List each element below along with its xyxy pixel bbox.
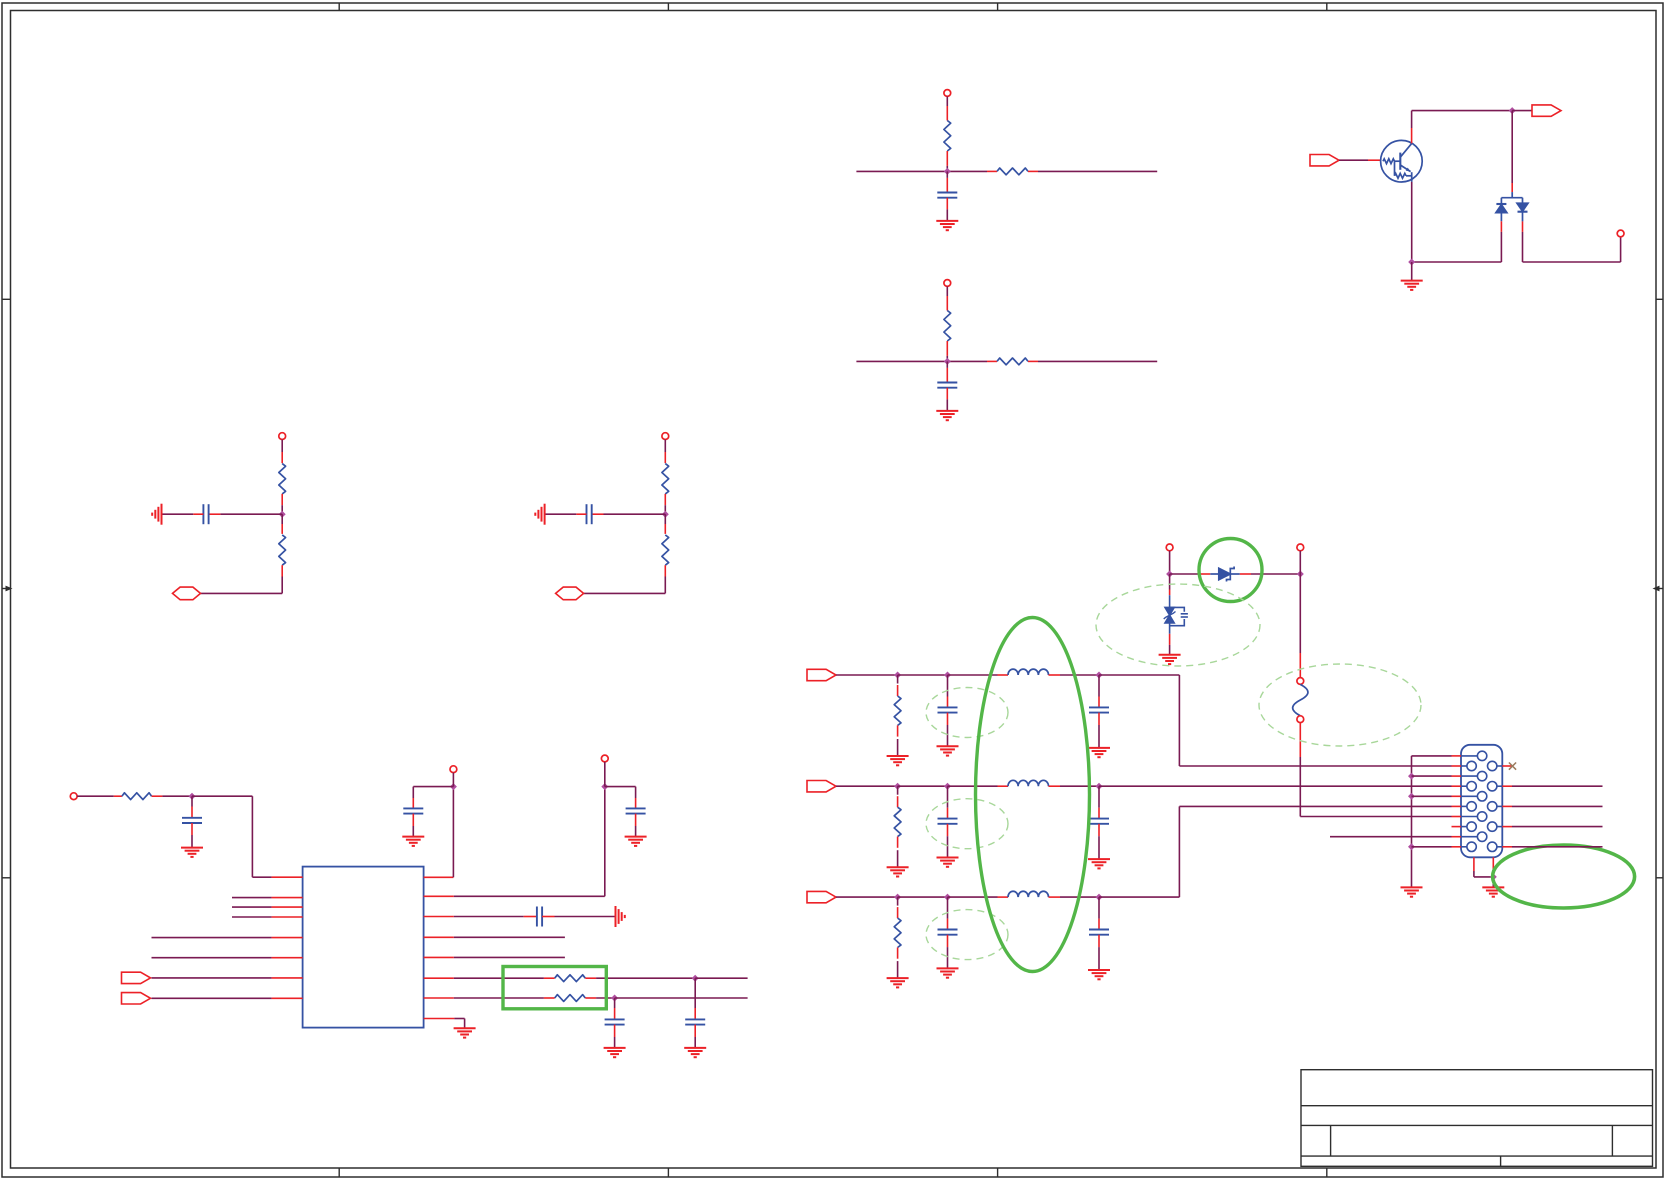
wire CH3 to J1 xyxy=(1099,896,1179,898)
resistor R2a (vertical) xyxy=(944,311,951,342)
ground xyxy=(937,746,959,755)
ground xyxy=(684,1048,706,1057)
ground xyxy=(936,411,958,420)
wire (horizontal net) xyxy=(856,360,987,362)
resistor (lower) xyxy=(664,514,666,524)
wire xyxy=(281,440,283,453)
node junction xyxy=(1408,773,1415,780)
port (bidirectional) xyxy=(173,587,201,600)
wire xyxy=(1412,775,1452,777)
wire xyxy=(664,440,666,453)
wire xyxy=(898,674,948,676)
wire xyxy=(1060,674,1099,676)
ground xyxy=(887,756,909,765)
wire xyxy=(695,977,747,979)
port (open circle) xyxy=(1617,230,1624,237)
wire xyxy=(836,896,898,898)
node junction xyxy=(1490,873,1497,880)
connector J1 (body) xyxy=(1461,745,1502,858)
J1 shell pins to ground xyxy=(1473,857,1475,871)
port IN (arrow) xyxy=(1310,155,1339,166)
J1 pin L5 xyxy=(1452,846,1462,848)
resistor (pulldown CH2) xyxy=(897,786,899,795)
J1 pin R1 xyxy=(1497,765,1502,767)
node junction xyxy=(692,975,699,982)
diode D2 (schottky) xyxy=(1199,573,1211,575)
node junction xyxy=(1408,259,1415,266)
capacitor (CH3 output) xyxy=(1098,897,1100,919)
ground xyxy=(1088,748,1110,757)
wire to D1 xyxy=(1511,111,1513,183)
pin lead xyxy=(946,151,948,166)
U1 pin 9 (gnd) xyxy=(424,1018,455,1020)
wire xyxy=(1060,896,1099,898)
capacitor (series) xyxy=(454,916,524,918)
highlight circle (green) xyxy=(1199,539,1262,602)
wire to U1 pin 1 xyxy=(192,795,252,797)
highlight ellipse (dashed) xyxy=(926,910,1008,960)
wire to right xyxy=(1038,170,1157,172)
port CH3 (arrow) xyxy=(807,891,836,902)
wire xyxy=(1412,795,1452,797)
port OUT (arrow) xyxy=(1512,110,1532,112)
ground xyxy=(604,1048,626,1057)
pin lead xyxy=(281,494,283,505)
J1 pin R2 xyxy=(1497,785,1502,787)
capacitor C1 (to ground) xyxy=(946,171,948,178)
wire xyxy=(898,785,948,787)
U1 pin 11 xyxy=(424,977,454,979)
wire xyxy=(452,787,454,878)
pin lead xyxy=(1169,634,1171,645)
port (bidirectional) xyxy=(556,587,584,600)
wire xyxy=(1512,846,1603,848)
J1 pin 5 xyxy=(1452,795,1462,797)
resistor (series, in highlight box) xyxy=(544,997,555,999)
highlight ellipse (dashed) xyxy=(1096,584,1260,666)
wire emitter net xyxy=(1411,182,1413,262)
node junction xyxy=(944,358,951,365)
node junction xyxy=(894,783,901,790)
capacitor (to gnd) xyxy=(191,796,193,806)
Q1 collector wire xyxy=(1411,128,1413,143)
capacitor (decoupling) xyxy=(605,786,636,788)
ground xyxy=(454,1028,476,1037)
wire xyxy=(1299,757,1301,817)
node junction xyxy=(1509,107,1516,114)
J1 pin 1 xyxy=(1452,755,1462,757)
no-connect X xyxy=(1509,763,1516,770)
fuse F1 xyxy=(1297,678,1304,685)
J1 pin 9 xyxy=(1452,836,1462,838)
pin lead xyxy=(152,795,163,797)
wire xyxy=(948,674,998,676)
highlight ellipse (dashed) xyxy=(926,688,1008,738)
ground xyxy=(887,867,909,876)
port CH1 (arrow) xyxy=(807,669,836,680)
inductor L3 (ferrite bead) xyxy=(998,896,1009,898)
ground xyxy=(1401,887,1423,896)
ground (sideways) xyxy=(152,504,161,525)
transistor Q1 (digital transistor) xyxy=(1381,140,1423,182)
wire xyxy=(454,977,544,979)
pin lead xyxy=(946,341,948,356)
node junction xyxy=(1166,571,1173,578)
node junction xyxy=(1297,571,1304,578)
wire xyxy=(1169,551,1171,574)
ground xyxy=(1088,859,1110,868)
wire CH2 to J1 xyxy=(1099,785,1452,787)
wire xyxy=(1492,877,1494,888)
resistor (upper) xyxy=(662,464,669,494)
node junction xyxy=(279,511,286,518)
wire xyxy=(1299,551,1301,574)
U1 pin 12 xyxy=(424,956,454,958)
node junction xyxy=(944,894,951,901)
inductor L2 (ferrite bead) xyxy=(998,785,1009,787)
wire xyxy=(454,997,544,999)
D1 pin leads xyxy=(1500,221,1502,232)
port (open circle) xyxy=(1166,544,1173,551)
U1 pin 5 xyxy=(152,937,272,939)
dual diode D1 (common node) xyxy=(1496,192,1528,221)
U1 pin 3 xyxy=(232,906,272,908)
ground xyxy=(1088,970,1110,979)
node junction xyxy=(1408,793,1415,800)
IC U1 (body) xyxy=(303,867,424,1028)
node junction xyxy=(189,793,196,800)
wire xyxy=(615,997,748,999)
wire CH1 to J1 xyxy=(1099,674,1179,676)
J1 pin L2 xyxy=(1452,785,1462,787)
wire xyxy=(1412,846,1452,848)
port (open circle) xyxy=(601,755,608,762)
capacitor (CH2 output) xyxy=(1098,786,1100,808)
pin lead xyxy=(664,494,666,505)
node junction xyxy=(450,783,457,790)
ground xyxy=(1159,655,1181,664)
ground (sideways) xyxy=(616,906,625,927)
ground xyxy=(936,221,958,230)
port (open circle) xyxy=(70,793,77,800)
U1 pin 10 xyxy=(424,997,454,999)
U1 pin 14 xyxy=(424,916,454,918)
wire xyxy=(1170,573,1199,575)
J1 pin R4 xyxy=(1497,826,1502,828)
wire xyxy=(77,795,114,797)
ground xyxy=(625,837,647,846)
capacitor (series to gnd) xyxy=(220,513,282,515)
J1 pin L1 xyxy=(1452,765,1462,767)
capacitor (decoupling) xyxy=(413,786,453,788)
wire D1 right to port xyxy=(1522,232,1524,262)
TVS D3 (with parallel cap) xyxy=(1169,574,1171,590)
wire xyxy=(948,896,998,898)
J1 pin L3 xyxy=(1452,805,1462,807)
resistor (pulldown CH1) xyxy=(897,675,899,684)
wire gnd bus xyxy=(1411,756,1413,888)
ground (sideways) xyxy=(535,504,544,525)
highlight ellipse (dashed) xyxy=(926,799,1008,849)
wire xyxy=(454,895,605,897)
U1 pin 7 xyxy=(152,977,272,979)
ground xyxy=(1401,281,1423,290)
highlight ellipse (dashed) xyxy=(1259,664,1421,746)
capacitor (to gnd) xyxy=(614,998,616,1008)
node junction xyxy=(944,672,951,679)
resistor (pulldown CH3) xyxy=(897,897,899,906)
wire collector net xyxy=(1412,110,1513,112)
resistor (lower) xyxy=(281,514,283,524)
port (arrow) xyxy=(122,993,151,1004)
port (open circle) xyxy=(450,766,457,773)
port (open circle) xyxy=(662,433,669,440)
capacitor C2 (to ground) xyxy=(946,361,948,368)
wire xyxy=(1512,826,1603,828)
node junction xyxy=(944,168,951,175)
resistor R1b (series horizontal) xyxy=(987,170,997,172)
pin lead xyxy=(1299,723,1301,757)
node junction xyxy=(1096,672,1103,679)
ground xyxy=(937,858,959,867)
node junction xyxy=(894,672,901,679)
capacitor (CH3 input) xyxy=(947,897,949,919)
wire xyxy=(454,956,565,958)
node junction xyxy=(944,783,951,790)
wire P1 to R1a xyxy=(946,96,948,106)
U1 pin 2 xyxy=(232,897,272,899)
wire xyxy=(596,977,695,979)
highlight box (green) xyxy=(503,967,606,1009)
U1 pin 16 xyxy=(424,876,454,878)
capacitor (CH2 input) xyxy=(947,786,949,808)
resistor (series, in highlight box) xyxy=(544,977,555,979)
wire to port xyxy=(584,592,666,594)
wire xyxy=(1412,261,1502,263)
J1 pin L4 xyxy=(1452,826,1462,828)
U1 pin 13 xyxy=(424,936,454,938)
ground xyxy=(1482,887,1504,896)
wire to right xyxy=(1038,360,1157,362)
capacitor (CH1 output) xyxy=(1098,675,1100,697)
port (open circle) xyxy=(1297,544,1304,551)
node junction xyxy=(611,995,618,1002)
ground xyxy=(402,837,424,846)
wire P2 to R2a xyxy=(946,286,948,296)
port CH2 (arrow) xyxy=(807,781,836,792)
wire xyxy=(1060,785,1099,787)
wire to Q1 base xyxy=(1339,159,1368,161)
wire to port xyxy=(201,592,283,594)
wire xyxy=(898,896,948,898)
node junction xyxy=(662,511,669,518)
J1 pin 3 xyxy=(1452,775,1462,777)
U1 pin 1 xyxy=(272,876,303,878)
J1 pin 7 xyxy=(1452,816,1462,818)
wire xyxy=(452,773,454,787)
wire to ground xyxy=(1411,262,1413,281)
node junction xyxy=(1096,894,1103,901)
wire xyxy=(454,1018,464,1020)
node junction xyxy=(601,783,608,790)
ground xyxy=(181,848,203,857)
resistor (upper) xyxy=(279,464,286,494)
resistor R2b (series horizontal) xyxy=(987,360,997,362)
wire xyxy=(948,785,998,787)
resistor (series) xyxy=(122,793,152,800)
wire (dangling net) xyxy=(1330,836,1452,838)
wire xyxy=(454,936,565,938)
resistor R1a (vertical) xyxy=(944,121,951,152)
wire xyxy=(1512,805,1603,807)
J1 pin R3 xyxy=(1497,805,1502,807)
port (arrow) xyxy=(122,972,151,983)
U1 pin 4 xyxy=(232,916,272,918)
capacitor (to gnd) xyxy=(694,978,696,1008)
ground xyxy=(937,968,959,977)
big highlight ellipse (green) xyxy=(976,618,1090,972)
U1 pin 8 xyxy=(152,997,272,999)
wire (horizontal net) xyxy=(856,170,987,172)
J1 pin R5 xyxy=(1497,846,1502,848)
wire xyxy=(604,762,606,787)
capacitor (CH1 input) xyxy=(947,675,949,697)
wire xyxy=(836,785,898,787)
inductor L1 (ferrite bead) xyxy=(998,674,1009,676)
wire xyxy=(1251,573,1300,575)
wire xyxy=(596,997,615,999)
port P1 (open circle) xyxy=(944,90,951,97)
U1 pin 15 xyxy=(424,895,454,897)
node junction xyxy=(1096,783,1103,790)
port P2 (open circle) xyxy=(944,280,951,287)
U1 pin 6 xyxy=(152,957,272,959)
wire xyxy=(1299,574,1301,653)
node junction xyxy=(894,894,901,901)
wire xyxy=(836,674,898,676)
highlight ellipse (green) xyxy=(1493,845,1635,908)
node junction xyxy=(1408,843,1415,850)
wire J1 outputs right xyxy=(1512,785,1603,787)
ground xyxy=(887,978,909,987)
port (open circle) xyxy=(279,433,286,440)
capacitor (series to gnd) xyxy=(604,513,666,515)
